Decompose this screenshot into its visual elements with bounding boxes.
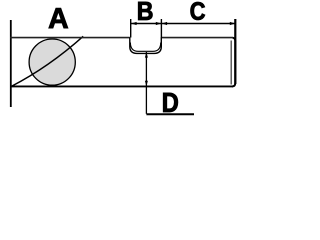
diagonal line through circle [11,36,83,86]
extension line, groove left wall (B left) [130,19,132,38]
label D [163,93,178,112]
dimension line B + C [131,23,235,25]
label C [191,2,205,20]
groove outer contour [130,37,162,53]
arrowhead C right [230,22,236,25]
groove inner contour (far-side silhouette) [130,43,160,52]
circle (shaft cross-section detail, gray filled) [29,39,75,85]
arrowhead D top (points up at groove root) [145,52,148,58]
right end face with rounded corners [232,38,235,87]
arrowhead B left [131,22,137,25]
arrowhead C left [162,22,168,25]
label B [138,2,152,20]
arrowhead D bottom (points down at shaft bottom edge) [145,81,148,87]
arrowhead B right [156,22,162,25]
label A [49,8,68,28]
wire: shaft top edge, left of groove [10,37,130,39]
dimension line D (vertical) [145,52,147,114]
inner edge line of right end [230,41,232,85]
wire: shaft top edge, right of groove [161,37,232,39]
wire: shaft bottom edge [10,85,233,87]
label D underline [146,113,194,115]
right end face vertical (merges with C extension line) [234,19,236,84]
extension line, groove right wall (B right / C left) [160,19,162,38]
wire: left vertical edge line [10,20,12,107]
